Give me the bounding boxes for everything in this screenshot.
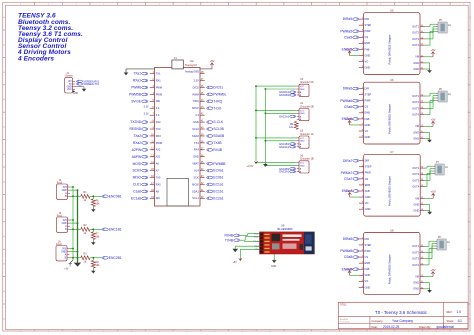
svg-text:GND: GND [365, 53, 371, 57]
svg-text:DIRa6: DIRa6 [343, 87, 353, 91]
svg-text:Encoder 0B: Encoder 0B [301, 105, 314, 108]
svg-text:ENC1A1: ENC1A1 [279, 116, 289, 119]
svg-text:D13: D13 [156, 120, 161, 124]
svg-text:SDA1: SDA1 [192, 189, 199, 193]
svg-text:DIRa5: DIRa5 [343, 17, 353, 21]
svg-text:EC1b1: EC1b1 [213, 190, 223, 194]
svg-text:GND: GND [61, 251, 66, 253]
svg-text:S-CLK: S-CLK [213, 120, 224, 124]
svg-text:U2: U2 [190, 59, 194, 63]
svg-text:REV:: REV: [447, 310, 453, 314]
svg-text:PWR: PWR [365, 249, 371, 253]
svg-text:+3.3V: +3.3V [346, 47, 354, 51]
svg-text:DIR: DIR [365, 159, 370, 163]
svg-text:DIRa8: DIRa8 [343, 237, 353, 241]
svg-text:CS: CS [365, 35, 369, 39]
svg-text:SV-DE: SV-DE [131, 99, 142, 103]
svg-text:OUT3: OUT3 [412, 257, 419, 261]
svg-text:TX: TX [69, 84, 72, 86]
svg-text:GND: GND [300, 141, 305, 143]
svg-text:PWM: PWM [156, 85, 162, 89]
svg-text:+3V: +3V [64, 268, 69, 270]
svg-text:+3.3V: +3.3V [346, 117, 354, 121]
svg-text:VO: VO [365, 279, 369, 283]
svg-text:+5V: +5V [233, 261, 238, 264]
svg-text:CLK1: CLK1 [133, 183, 141, 187]
svg-text:U6: U6 [390, 78, 394, 82]
svg-text:TX4B: TX4B [213, 141, 222, 145]
svg-text:guadaltemal: guadaltemal [437, 325, 455, 329]
svg-text:T0 - Teensy 3.6 Schematic: T0 - Teensy 3.6 Schematic [375, 310, 428, 315]
svg-text:ENC2A1: ENC2A1 [279, 146, 289, 149]
svg-text:PWR: PWR [365, 29, 371, 33]
svg-text:+3.3V: +3.3V [346, 189, 354, 193]
svg-text:FAB: FAB [365, 47, 370, 51]
svg-text:A7: A7 [156, 169, 160, 173]
svg-text:Teensy3.6: Teensy3.6 [185, 63, 197, 67]
svg-text:3.3V: 3.3V [144, 112, 149, 115]
svg-text:+3.3V: +3.3V [247, 164, 254, 168]
svg-text:Drawn By:: Drawn By: [419, 325, 431, 329]
svg-text:Enc2: Enc2 [56, 243, 62, 246]
svg-text:GND: GND [62, 223, 67, 225]
svg-text:GND: GND [365, 65, 371, 69]
svg-text:PWM5B: PWM5B [129, 92, 142, 96]
svg-text:VBAT: VBAT [192, 162, 199, 166]
svg-text:C1a6: C1a6 [133, 190, 141, 194]
svg-text:Screen: Screen [65, 75, 73, 78]
svg-text:CS: CS [365, 105, 369, 109]
svg-text:TIRQ: TIRQ [193, 99, 199, 103]
svg-text:3V3: 3V3 [63, 187, 68, 189]
svg-text:A22: A22 [156, 148, 161, 152]
svg-text:PWMa8: PWMa8 [340, 249, 352, 253]
svg-text:SCREEN-TX1: SCREEN-TX1 [83, 83, 99, 86]
svg-text:STEP: STEP [365, 165, 372, 169]
svg-text:3V3: 3V3 [62, 248, 67, 250]
svg-text:MOSI: MOSI [133, 162, 142, 166]
svg-text:PWMa7: PWMa7 [341, 171, 353, 175]
svg-text:CSa6: CSa6 [344, 105, 352, 109]
svg-text:OUT2: OUT2 [412, 31, 419, 35]
svg-text:FAB: FAB [365, 189, 370, 193]
svg-text:ENC0B1: ENC0B1 [279, 94, 289, 97]
svg-text:EC0a1: EC0a1 [213, 169, 223, 173]
svg-text:ENC3A1: ENC3A1 [279, 171, 289, 174]
svg-text:GND: GND [413, 281, 419, 285]
svg-text:PWM: PWM [192, 92, 198, 96]
svg-text:EC0b1: EC0b1 [213, 176, 223, 180]
svg-text:+5V: +5V [430, 268, 435, 272]
svg-text:VO: VO [365, 201, 369, 205]
svg-text:4 Encoders: 4 Encoders [17, 55, 54, 62]
svg-text:GND: GND [300, 113, 305, 115]
svg-text:CSa7: CSa7 [344, 177, 352, 181]
svg-text:GND: GND [365, 123, 371, 127]
svg-text:1.0: 1.0 [457, 310, 462, 314]
svg-text:ENC0B1: ENC0B1 [109, 194, 122, 198]
svg-text:TX3: TX3 [156, 127, 161, 131]
svg-text:DIR: DIR [365, 87, 370, 91]
svg-text:DIRa7: DIRa7 [343, 159, 353, 163]
svg-text:GND: GND [365, 285, 371, 289]
svg-text:SDA0: SDA0 [192, 134, 199, 138]
svg-text:3.3: 3.3 [156, 106, 160, 110]
svg-text:+5V: +5V [431, 190, 436, 194]
svg-text:OUT4: OUT4 [412, 263, 419, 267]
svg-text:OUT2: OUT2 [412, 172, 419, 176]
svg-text:D/E: D/E [156, 99, 161, 103]
svg-text:EC2a1: EC2a1 [213, 196, 223, 200]
svg-text:Enc0: Enc0 [57, 181, 63, 184]
svg-text:CSa5: CSa5 [344, 35, 352, 39]
svg-text:Company:: Company: [372, 319, 384, 323]
svg-text:A14: A14 [194, 169, 199, 173]
svg-text:GND: GND [73, 93, 78, 95]
svg-text:U9: U9 [281, 224, 285, 228]
svg-text:1A: 1A [445, 166, 448, 169]
svg-text:VM: VM [415, 275, 419, 279]
svg-text:CS: CS [365, 255, 369, 259]
svg-text:SCL1: SCL1 [192, 196, 199, 200]
svg-text:GND: GND [413, 287, 419, 291]
svg-text:+5V: +5V [430, 118, 435, 122]
svg-text:3V3: 3V3 [63, 220, 68, 222]
svg-text:GND: GND [413, 61, 419, 65]
svg-text:Your Company: Your Company [392, 319, 413, 323]
svg-text:OUT2: OUT2 [412, 100, 419, 104]
svg-text:DIR: DIR [365, 237, 370, 241]
svg-text:U8: U8 [390, 228, 394, 232]
svg-text:3.3V: 3.3V [193, 78, 199, 82]
svg-text:A2PW: A2PW [132, 148, 142, 152]
svg-text:PWR: PWR [365, 99, 371, 103]
svg-text:PWM6: PWM6 [131, 86, 141, 90]
svg-text:VM: VM [415, 55, 419, 59]
svg-text:ENC2B1: ENC2B1 [109, 256, 122, 260]
svg-text:A6PW: A6PW [132, 155, 142, 159]
svg-text:GND: GND [413, 209, 419, 213]
svg-text:GND: GND [62, 190, 67, 192]
svg-text:RX4: RX4 [194, 148, 200, 152]
svg-text:SCL0: SCL0 [192, 127, 199, 131]
svg-text:SDA0B: SDA0B [213, 134, 225, 138]
svg-text:VM: VM [415, 124, 419, 128]
svg-text:Date:: Date: [372, 325, 378, 329]
svg-text:ENB: ENB [365, 111, 371, 115]
svg-text:OUT1: OUT1 [412, 244, 419, 248]
svg-text:CSa8: CSa8 [344, 255, 352, 259]
svg-text:Enc1: Enc1 [57, 214, 63, 217]
svg-text:Analog GND: Analog GND [185, 71, 199, 74]
svg-text:PWR: PWR [365, 171, 371, 175]
svg-text:VCC: VCC [300, 163, 305, 165]
svg-text:3.3V: 3.3V [144, 105, 149, 108]
svg-text:Pololu DRV8825 Stepper: Pololu DRV8825 Stepper [388, 254, 392, 284]
svg-text:T-DO: T-DO [213, 106, 221, 110]
svg-text:CS: CS [365, 177, 369, 181]
svg-text:GND: GND [413, 202, 419, 206]
svg-text:SCK: SCK [193, 175, 199, 179]
svg-text:PWM: PWM [156, 92, 162, 96]
svg-text:GND: GND [300, 89, 305, 91]
svg-text:PWM/BL: PWM/BL [213, 92, 226, 96]
svg-text:Pololu DRV8825 Stepper: Pololu DRV8825 Stepper [388, 34, 392, 64]
svg-text:OUT4: OUT4 [412, 113, 419, 117]
svg-text:GND: GND [300, 166, 305, 168]
svg-text:Encoder 1B: Encoder 1B [301, 158, 314, 161]
svg-text:PWM8B: PWM8B [213, 162, 226, 166]
svg-text:ENB: ENB [365, 261, 371, 265]
svg-text:GND: GND [413, 130, 419, 134]
svg-text:GND: GND [365, 195, 371, 199]
svg-text:DIR: DIR [365, 17, 370, 21]
svg-text:GND: GND [193, 155, 199, 159]
svg-text:D/CS1: D/CS1 [213, 86, 223, 90]
svg-text:2019-02-25: 2019-02-25 [383, 325, 400, 329]
svg-text:PWMa6: PWMa6 [340, 99, 352, 103]
svg-text:A8: A8 [156, 189, 160, 193]
svg-text:D/CS: D/CS [193, 85, 199, 89]
svg-text:TX1: TX1 [156, 72, 161, 76]
svg-text:FAB: FAB [365, 117, 370, 121]
svg-text:PWMa5: PWMa5 [340, 29, 352, 33]
svg-text:3.3: 3.3 [156, 113, 160, 117]
svg-text:OUT1: OUT1 [412, 24, 419, 28]
svg-text:GND: GND [365, 135, 371, 139]
svg-text:GND: GND [271, 266, 276, 268]
svg-text:D/C: D/C [156, 196, 161, 200]
svg-text:Pololu DRV8825 Stepper: Pololu DRV8825 Stepper [388, 104, 392, 134]
svg-text:OUT2: OUT2 [412, 250, 419, 254]
svg-text:1A: 1A [448, 93, 451, 96]
svg-text:Powered By: Powered By [340, 322, 350, 324]
svg-text:FAB: FAB [365, 267, 370, 271]
svg-text:GND: GND [413, 67, 419, 71]
svg-text:Pololu DRV8825 Stepper: Pololu DRV8825 Stepper [388, 176, 392, 206]
svg-text:BLUESMiRF: BLUESMiRF [278, 227, 294, 231]
svg-text:OUT1: OUT1 [412, 94, 419, 98]
svg-text:RX4B: RX4B [213, 148, 222, 152]
svg-text:RX: RX [68, 81, 72, 83]
svg-text:STEP: STEP [365, 23, 372, 27]
svg-text:MISO: MISO [192, 106, 199, 110]
svg-text:RXa1: RXa1 [133, 79, 141, 83]
svg-text:U7: U7 [390, 150, 394, 154]
svg-text:VM: VM [415, 196, 419, 200]
svg-text:MOSI: MOSI [192, 182, 199, 186]
svg-text:OUT4: OUT4 [412, 43, 419, 47]
svg-text:VCC: VCC [300, 110, 305, 112]
svg-text:GND: GND [193, 120, 199, 124]
svg-text:RX1: RX1 [156, 78, 162, 82]
svg-text:GND: GND [67, 87, 72, 89]
svg-text:OUT3: OUT3 [412, 178, 419, 182]
svg-text:1A: 1A [447, 241, 450, 244]
svg-text:STEP: STEP [365, 243, 372, 247]
svg-text:TXa1: TXa1 [133, 72, 141, 76]
svg-text:Sheet:: Sheet: [447, 319, 455, 323]
svg-text:Encoder 0A: Encoder 0A [301, 81, 314, 84]
svg-text:TX5: TX5 [156, 175, 161, 179]
svg-text:Encoder 1A: Encoder 1A [301, 133, 314, 136]
svg-text:3.3: 3.3 [195, 113, 199, 117]
svg-text:+3.3V: +3.3V [346, 267, 354, 271]
svg-text:SCL0B: SCL0B [213, 127, 224, 131]
svg-text:EasyEDA: EasyEDA [340, 318, 348, 321]
svg-text:VCC: VCC [300, 86, 305, 88]
svg-text:VCC: VCC [67, 89, 72, 91]
svg-text:MISO: MISO [133, 176, 142, 180]
svg-text:RESND: RESND [130, 127, 142, 131]
svg-text:A21: A21 [156, 155, 161, 159]
svg-text:STEP: STEP [365, 93, 372, 97]
svg-text:OUT3: OUT3 [412, 106, 419, 110]
svg-text:A6: A6 [156, 162, 160, 166]
svg-text:PWM: PWM [156, 141, 162, 145]
svg-text:OUT3: OUT3 [412, 37, 419, 41]
svg-text:VO: VO [365, 129, 369, 133]
svg-text:VCC: VCC [300, 138, 305, 140]
svg-text:+5V: +5V [430, 48, 435, 52]
svg-text:T-IRQ: T-IRQ [213, 99, 222, 103]
svg-text:TXa2: TXa2 [133, 134, 141, 138]
svg-text:EC1a6: EC1a6 [131, 196, 141, 200]
svg-text:1/1: 1/1 [458, 319, 463, 323]
svg-text:OUT4: OUT4 [412, 185, 419, 189]
svg-text:1A: 1A [448, 24, 451, 27]
svg-text:RX5: RX5 [156, 182, 162, 186]
svg-text:SCK0: SCK0 [132, 169, 141, 173]
svg-text:GND: GND [413, 136, 419, 140]
svg-text:TX4B: TX4B [225, 238, 234, 242]
svg-text:ENB: ENB [365, 41, 371, 45]
svg-text:U5: U5 [390, 9, 394, 13]
svg-text:TITLE:: TITLE: [340, 305, 347, 307]
svg-text:ENC1B1: ENC1B1 [109, 227, 122, 231]
svg-text:RX3: RX3 [156, 134, 162, 138]
svg-text:VO: VO [365, 59, 369, 63]
svg-text:RX4B: RX4B [224, 234, 233, 238]
svg-text:ENB: ENB [365, 183, 371, 187]
svg-text:GND: GND [365, 273, 371, 277]
svg-text:RXa2: RXa2 [133, 141, 141, 145]
svg-text:TX2ND: TX2ND [130, 120, 141, 124]
svg-text:TX4: TX4 [194, 141, 199, 145]
svg-text:+5V: +5V [209, 59, 214, 63]
svg-text:GND: GND [365, 207, 371, 211]
svg-text:OUT1: OUT1 [412, 166, 419, 170]
svg-text:EC1a1: EC1a1 [213, 183, 223, 187]
